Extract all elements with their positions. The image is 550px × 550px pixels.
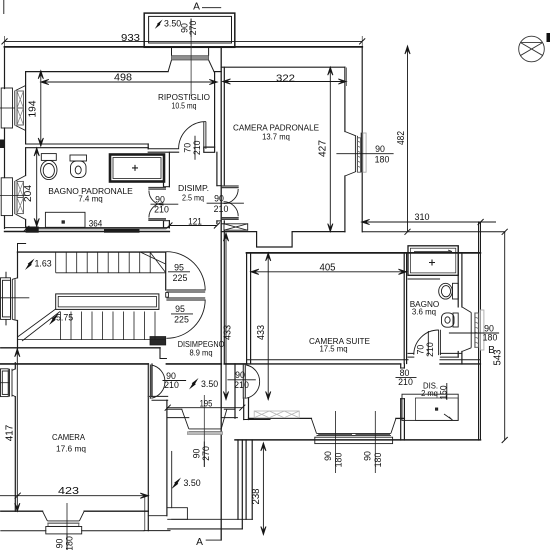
wall stair hall south band xyxy=(1,347,160,349)
svg-text:180: 180 xyxy=(375,155,390,165)
wall west exterior outer face xyxy=(4,47,6,89)
flash 3.50 balcony xyxy=(172,478,182,490)
flash 3.50 terrace xyxy=(155,20,163,29)
svg-text:121: 121 xyxy=(188,217,202,227)
svg-text:A: A xyxy=(196,537,203,548)
wall camera east xyxy=(147,364,149,531)
svg-text:180: 180 xyxy=(373,453,383,468)
door disimpegno-camera lens 90/210 xyxy=(149,365,151,399)
window stair leader line xyxy=(0,297,29,299)
flash 3.50 disimpegno xyxy=(189,378,199,390)
svg-text:238: 238 xyxy=(251,488,262,504)
dim 482 line xyxy=(407,46,409,232)
wall line under 482 arrow xyxy=(363,231,506,233)
svg-text:7.4 mq: 7.4 mq xyxy=(78,193,103,203)
parapet hatch west of window xyxy=(254,411,299,418)
svg-text:90: 90 xyxy=(235,370,245,380)
window suite south big xyxy=(311,419,396,434)
wall bagno south xyxy=(408,352,414,354)
door stairs upper leaf+arc 95/225 xyxy=(166,290,205,292)
wall under shower (bagno north inner) xyxy=(408,274,440,276)
wall corridor south (balcony door wall) xyxy=(168,408,182,410)
dim 427 line xyxy=(329,67,331,231)
poché corner bagno SW xyxy=(26,227,39,233)
svg-text:CAMERA: CAMERA xyxy=(52,432,85,442)
wall stair east jambs at doors xyxy=(165,252,167,290)
wall bagno east (to disimp) upper xyxy=(163,182,165,187)
window ripostiglio west xyxy=(1,88,12,128)
window suite south leaders xyxy=(336,411,376,473)
terrace outline xyxy=(144,13,235,47)
wall ripostiglio/bagno divider xyxy=(26,143,149,145)
svg-text:A: A xyxy=(193,2,200,13)
door disimp-camera padronale lens 90/210 xyxy=(222,186,239,188)
dim 433 left line xyxy=(225,233,227,399)
dim fraction line 70/210 rip door (vertical) xyxy=(194,136,196,160)
door stairs lower leaf+arc 95/225 xyxy=(166,298,205,300)
wall east exterior outer face (north block) xyxy=(361,47,363,232)
wall ripostiglio east (to camera padronale) xyxy=(214,72,216,148)
section line A top elbow xyxy=(202,7,221,9)
svg-text:210: 210 xyxy=(425,342,435,357)
dim fraction line 90/180 camera south (vertical) xyxy=(66,534,68,550)
window camera south xyxy=(43,511,85,521)
wall suite north xyxy=(247,252,481,254)
svg-text:433: 433 xyxy=(223,325,234,340)
svg-text:90: 90 xyxy=(363,451,373,461)
stairs going diagonals SW xyxy=(18,309,61,341)
svg-text:90: 90 xyxy=(155,194,165,204)
wall suite south xyxy=(247,359,409,361)
terrace door splays xyxy=(168,60,214,72)
svg-text:17.6 mq: 17.6 mq xyxy=(56,444,86,454)
svg-text:13.7 mq: 13.7 mq xyxy=(262,131,290,141)
wall jamb post right of ripostiglio door xyxy=(204,147,215,152)
fixture vanity bagno padronale xyxy=(45,212,85,227)
dim fraction line 90/270 top (vertical) xyxy=(190,19,192,37)
svg-text:5.75: 5.75 xyxy=(56,312,73,322)
balcony door centerline xyxy=(203,395,205,467)
dim 933 line xyxy=(5,40,363,42)
terrace door sill xyxy=(172,56,209,60)
svg-text:543: 543 xyxy=(493,349,504,365)
wall north exterior xyxy=(5,46,363,48)
dim 195 line xyxy=(168,407,243,409)
dim 322 line xyxy=(223,81,347,83)
svg-text:90: 90 xyxy=(323,451,333,461)
flash 1.63 stair xyxy=(25,259,35,271)
wall camera padronale east inner face xyxy=(344,67,346,131)
svg-text:90: 90 xyxy=(375,144,385,154)
wall east exterior (south block) xyxy=(478,222,480,440)
dim 90/180 east window line xyxy=(336,153,393,155)
svg-text:10.5 mq: 10.5 mq xyxy=(172,101,197,111)
terrace door jambs xyxy=(172,48,209,56)
svg-text:364: 364 xyxy=(89,219,103,229)
fixture WC bagno suite xyxy=(453,283,459,299)
svg-text:423: 423 xyxy=(58,486,79,497)
wall bagno east xyxy=(457,246,459,307)
svg-text:270: 270 xyxy=(188,21,198,36)
svg-text:180: 180 xyxy=(65,536,75,550)
window camera padronale east xyxy=(345,132,356,177)
door disimpegno-corridor lens 90/210 xyxy=(243,365,245,399)
wall stair hall west xyxy=(17,252,19,278)
fixture bidet bagno padronale xyxy=(70,155,87,161)
dim 543 line xyxy=(504,232,506,440)
svg-text:194: 194 xyxy=(28,100,39,117)
stairs upper flight treads xyxy=(56,252,151,273)
svg-text:90: 90 xyxy=(192,449,202,459)
svg-text:210: 210 xyxy=(398,377,413,387)
dim fraction lines doors xyxy=(151,203,179,205)
dim 194 line xyxy=(40,71,42,146)
dim 498 line xyxy=(41,81,218,83)
svg-text:17.5 mq: 17.5 mq xyxy=(320,344,348,354)
door bagno-disimp lens 90/210 xyxy=(148,188,166,190)
window bagno west xyxy=(1,178,12,216)
section line A bottom elbow xyxy=(206,539,222,541)
stairs winder diagonals NE xyxy=(141,252,166,272)
stairs handrail middle xyxy=(56,294,159,310)
dim 405 line xyxy=(251,271,407,273)
wall west interior face ripostiglio/bagno xyxy=(25,72,27,144)
svg-text:225: 225 xyxy=(173,273,188,283)
door bagno east 70/210 xyxy=(439,330,441,355)
balcony bottom center walls xyxy=(171,451,173,507)
svg-text:3.50: 3.50 xyxy=(184,478,201,488)
wall spine west face / section trace xyxy=(220,47,222,540)
dim 417 line xyxy=(16,349,18,511)
wall camera west xyxy=(14,363,16,369)
dim 238 line xyxy=(262,443,264,535)
dim 90/180 east bagno line xyxy=(449,332,499,334)
window bagno east xyxy=(462,307,471,352)
svg-text:933: 933 xyxy=(121,33,140,44)
fixture tub bagno padronale xyxy=(110,155,164,182)
svg-text:310: 310 xyxy=(415,212,430,222)
wall south exterior of suite strip xyxy=(249,417,312,419)
wall bagno south band xyxy=(5,227,170,229)
flash 5.75 stair xyxy=(49,314,59,326)
dim fraction line 150 DIS (vertical) xyxy=(446,383,448,400)
dim 121 line xyxy=(169,225,217,227)
svg-text:195: 195 xyxy=(200,399,213,409)
wall suite east / bagno west xyxy=(403,253,405,364)
tick top-left edge xyxy=(3,0,5,14)
svg-text:417: 417 xyxy=(5,424,16,441)
svg-text:1.63: 1.63 xyxy=(35,259,52,269)
dim fraction line 90/270 balcony door (vertical) xyxy=(203,442,205,467)
stairs lower flight treads xyxy=(61,312,156,340)
svg-text:204: 204 xyxy=(23,185,34,202)
wall DIS west xyxy=(400,364,402,368)
svg-text:2.5 mq: 2.5 mq xyxy=(182,193,204,203)
wall spine camera padronale west face xyxy=(223,67,225,185)
svg-text:210: 210 xyxy=(154,205,169,215)
svg-text:210: 210 xyxy=(164,380,179,390)
svg-text:427: 427 xyxy=(318,140,329,157)
window stair west xyxy=(5,272,7,326)
wall ripostiglio top inner face xyxy=(26,71,169,73)
fixture closet DIS xyxy=(402,394,458,420)
wall black chunk stair SE xyxy=(150,337,166,346)
window camera south leader xyxy=(66,503,68,550)
svg-text:405: 405 xyxy=(320,262,336,273)
dim 433 right line xyxy=(267,253,269,400)
svg-text:270: 270 xyxy=(201,446,211,461)
balcony door bottom center xyxy=(182,409,227,429)
svg-text:225: 225 xyxy=(174,314,189,324)
svg-text:180: 180 xyxy=(334,453,344,468)
wall camera south xyxy=(1,510,43,512)
svg-text:482: 482 xyxy=(396,131,407,145)
svg-text:DISIMP.: DISIMP. xyxy=(178,183,209,193)
fixture shower bagno suite xyxy=(408,246,458,275)
fixture bidet bagno suite xyxy=(453,313,458,327)
wall camera padronale south + niche xyxy=(221,232,345,247)
wall section X box xyxy=(224,224,248,230)
fixture WC bagno padronale xyxy=(41,154,56,161)
dim 364 line xyxy=(26,228,166,230)
svg-text:8.9 mq: 8.9 mq xyxy=(190,348,213,358)
dim 204 line xyxy=(36,148,38,226)
terrace door centerline xyxy=(190,19,192,96)
wall south strip divider xyxy=(234,364,236,418)
wall bagno east (to disimp) lower xyxy=(163,221,165,228)
svg-text:180: 180 xyxy=(483,332,498,342)
wall camera padronale top inner face xyxy=(221,66,345,68)
svg-text:95: 95 xyxy=(175,304,185,314)
svg-text:322: 322 xyxy=(276,74,295,85)
svg-text:70: 70 xyxy=(415,345,425,355)
svg-text:210: 210 xyxy=(192,140,202,155)
svg-text:90: 90 xyxy=(55,539,65,549)
poché black bar under tub xyxy=(104,229,140,233)
window bagno leader line xyxy=(0,195,26,197)
dim fraction line 70/210 bagno door (vertical) xyxy=(427,331,429,356)
door ripostiglio-disimp 70/210 xyxy=(204,122,206,149)
wall suite west xyxy=(246,253,248,364)
dim 310 line xyxy=(362,221,496,223)
dim 423 line xyxy=(0,495,148,497)
svg-text:95: 95 xyxy=(174,262,184,272)
svg-text:3.6 mq: 3.6 mq xyxy=(412,306,436,316)
svg-text:2 mq: 2 mq xyxy=(421,388,438,398)
svg-text:433: 433 xyxy=(256,325,267,340)
svg-text:210: 210 xyxy=(214,204,229,214)
svg-text:210: 210 xyxy=(234,380,249,390)
wall stair hall north xyxy=(18,251,166,253)
svg-text:3.50: 3.50 xyxy=(201,379,218,389)
svg-text:90: 90 xyxy=(214,193,224,203)
svg-text:498: 498 xyxy=(114,73,132,84)
witness line camera SE xyxy=(144,496,146,531)
poché black left edge xyxy=(0,140,5,149)
window camera west xyxy=(1,369,9,397)
svg-text:150: 150 xyxy=(439,385,449,399)
